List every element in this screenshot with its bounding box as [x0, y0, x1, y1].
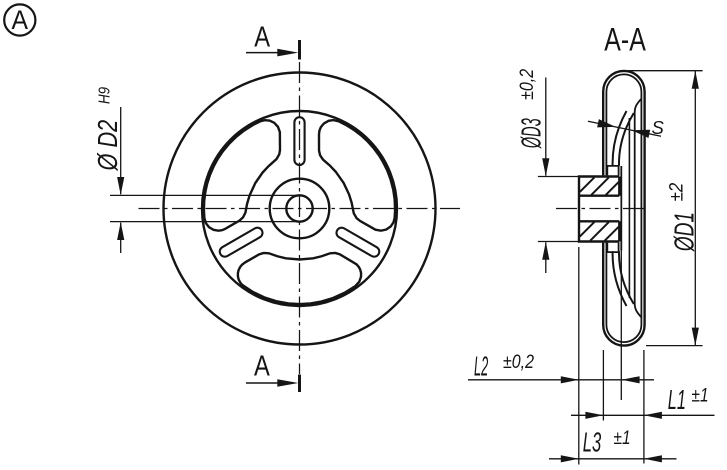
- spoke window cutout 3: [238, 253, 361, 304]
- section view: horizontal centerline: [556, 208, 648, 210]
- svg-text:A: A: [254, 350, 270, 382]
- svg-text:A: A: [254, 22, 270, 54]
- front view: horizontal centerline: [139, 208, 461, 210]
- bore circle: [286, 195, 312, 221]
- web upper step at hub: [607, 166, 618, 177]
- D3 extension lines: [538, 177, 579, 242]
- L2 extension line (web face): [620, 251, 622, 401]
- D1 extension lines: [622, 71, 703, 346]
- hub block background mask: [578, 175, 620, 242]
- section cut mark top: [298, 40, 301, 60]
- dimension line D3: [545, 78, 547, 274]
- rim cross-section inner wall: [606, 74, 641, 342]
- hub bore lines: [579, 196, 619, 222]
- grip slot 2: [220, 228, 263, 257]
- dimension line L3: [549, 458, 677, 460]
- web cone silhouette line: [620, 166, 622, 251]
- web (dished spoke plate) upper cross-section: [613, 111, 627, 166]
- hub hatching upper: [580, 177, 619, 195]
- hub hatching lower: [580, 222, 619, 241]
- grip slot 3: [336, 228, 379, 257]
- wall thickness S leader: [588, 121, 661, 136]
- hub block outline: [579, 177, 619, 242]
- svg-text:A: A: [11, 5, 28, 35]
- dimension line D1: [694, 71, 696, 346]
- view label circle A (top-left): [4, 4, 35, 35]
- rim left extension line: [602, 350, 604, 421]
- rim inner groove / disc seat profile: [635, 99, 642, 318]
- dimension line D2: [120, 107, 122, 253]
- grip slot 1: [294, 117, 304, 165]
- dimension line L1: [571, 414, 715, 416]
- outer rim circle: [164, 73, 436, 345]
- web rear silhouette line: [628, 118, 630, 298]
- rim cross-section outer profile: [603, 71, 644, 346]
- front view: vertical centerline / section cut plane: [299, 62, 301, 374]
- bore dimension extension lines: [110, 195, 300, 221]
- hub left extension line: [578, 247, 580, 465]
- inner rim circle: [202, 111, 397, 306]
- dimension line L2: [468, 379, 654, 381]
- web lower step at hub: [607, 242, 618, 253]
- svg-text:S: S: [652, 117, 665, 138]
- spoke window cutout 1: [319, 120, 395, 231]
- rim right extension line: [643, 350, 645, 464]
- hub boss circle: [270, 179, 330, 239]
- spoke window cutout 2: [204, 120, 280, 231]
- svg-text:A-A: A-A: [604, 21, 646, 57]
- section cut mark bottom: [298, 375, 301, 393]
- web (dished spoke plate) lower cross-section: [613, 251, 627, 306]
